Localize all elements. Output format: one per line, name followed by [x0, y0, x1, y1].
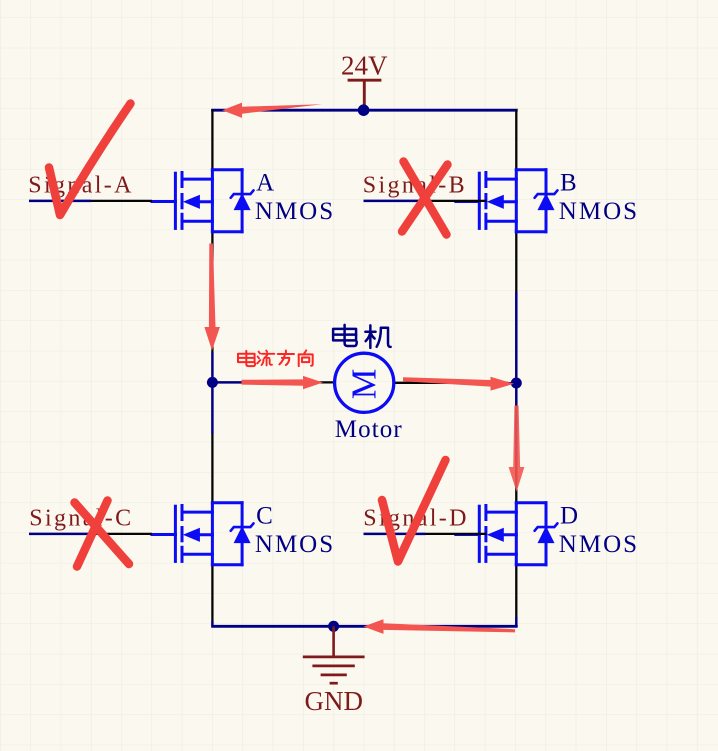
label 电流方向 (current direction, chinese): [238, 351, 255, 366]
wire corner left bottom: [211, 621, 214, 626]
wire left node to motor: [212, 381, 280, 384]
svg-text:A: A: [256, 170, 274, 197]
power symbol 24V: [348, 80, 382, 110]
annotation arrow down right branch: [509, 406, 525, 492]
annotation arrow top rail (points left): [222, 103, 322, 118]
wire 24V rail to Q-A drain: [211, 109, 213, 170]
wire Signal-D net label pin: [364, 533, 426, 536]
wire Q-B source down (black segment): [515, 232, 517, 292]
wire Signal-C to gate: [91, 533, 152, 535]
junction 24V node: [358, 104, 370, 116]
svg-text:M: M: [344, 369, 384, 400]
wire through node B-D (navy segment): [515, 292, 518, 460]
wire Signal-A net label pin: [29, 200, 91, 203]
wire corner right bottom: [515, 617, 518, 626]
annotation arrow bottom rail (points left): [364, 619, 516, 634]
wire Q-D source to bottom rail: [515, 565, 517, 617]
svg-text:D: D: [560, 503, 578, 530]
wire through node A-C (navy segment): [211, 352, 214, 434]
wire motor left pin: [280, 381, 335, 383]
svg-text:NMOS: NMOS: [255, 198, 335, 225]
transistor C (NMOS): [152, 503, 254, 565]
node left motor terminal: [207, 377, 218, 388]
annotation X over Signal-B: [402, 162, 448, 235]
svg-text:NMOS: NMOS: [255, 531, 335, 558]
svg-text:NMOS: NMOS: [559, 198, 639, 225]
wire 24V rail to Q-B drain: [515, 109, 517, 170]
svg-text:NMOS: NMOS: [559, 531, 639, 558]
wire bottom rail (GND net): [211, 625, 518, 628]
motor M1 circle: [335, 353, 394, 412]
transistor A (NMOS): [152, 170, 254, 232]
svg-text:GND: GND: [305, 686, 364, 716]
svg-text:C: C: [256, 503, 273, 530]
wire Signal-C net label pin: [29, 533, 91, 536]
wire Q-C source to bottom rail: [211, 565, 213, 621]
wire top rail (24V net): [211, 109, 518, 112]
wire down to Q-C drain: [211, 434, 213, 503]
junction GND node: [328, 621, 339, 632]
annotation checkmark over Signal-D: [382, 460, 446, 562]
wire down to Q-D drain: [515, 460, 517, 503]
wire Signal-A to gate: [91, 200, 152, 202]
wire Q-A source down (black segment): [211, 232, 213, 352]
wire motor right pin: [394, 382, 455, 384]
wire motor to right node: [455, 382, 516, 385]
node right motor terminal: [511, 378, 522, 389]
wire Signal-D to gate: [426, 533, 487, 535]
label 电机 (motor, chinese): [333, 325, 357, 346]
annotation arrow down left branch: [204, 244, 220, 351]
ground GND symbol: [303, 626, 365, 683]
annotation arrow left node to motor (points right): [242, 376, 324, 389]
svg-text:Motor: Motor: [335, 416, 403, 443]
annotation checkmark over Signal-A: [49, 104, 131, 216]
wire Signal-B net label pin: [364, 200, 426, 203]
annotation X over Signal-C: [75, 501, 130, 567]
transistor B (NMOS): [456, 170, 558, 232]
transistor D (NMOS): [456, 503, 558, 565]
annotation arrow motor to right node (points right): [403, 377, 514, 391]
wire Signal-B to gate: [426, 200, 487, 202]
svg-text:B: B: [560, 170, 577, 197]
svg-text:24V: 24V: [341, 51, 388, 81]
